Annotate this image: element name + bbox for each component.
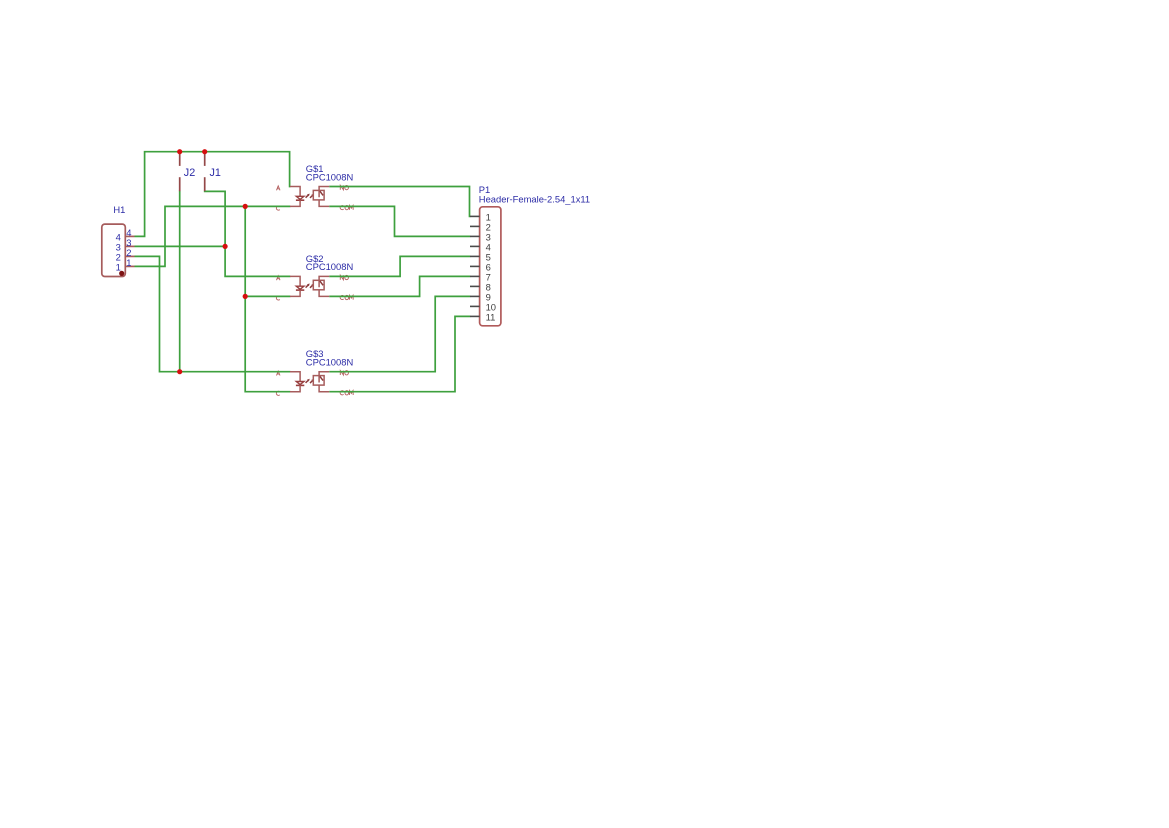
svg-text:Header-Female-2.54_1x11: Header-Female-2.54_1x11 (479, 193, 590, 204)
svg-text:1: 1 (126, 257, 131, 268)
svg-text:J1: J1 (210, 167, 221, 179)
pin label C of G$1 (276, 206, 279, 210)
P1 pin 1 stub (470, 215, 480, 217)
P1 pin 8 stub (470, 285, 480, 287)
wire G$1 NO to P1 pin1 (329, 187, 470, 217)
opto-relay G$3 switch box (313, 376, 324, 386)
opto-relay G$1 NO lead (319, 187, 329, 198)
P1 pin 3 stub (470, 235, 480, 237)
H1 pin 1 stub (125, 265, 134, 267)
wire J2 bottom to G$3 A row (179, 191, 181, 372)
connector H1 body (102, 224, 126, 276)
opto-relay G$3 COM lead (319, 385, 329, 392)
wire G$3 NO to P1 pin9 (329, 296, 470, 371)
svg-text:CPC1008N: CPC1008N (306, 261, 353, 272)
junction dot H1.3 / J1 (223, 244, 228, 249)
junction dot at J2 top (177, 149, 182, 154)
pin label A of G$3 (277, 371, 281, 375)
junction dot at J1 top (202, 149, 207, 154)
opto-relay G$2 LED triangle (296, 286, 304, 289)
opto-relay G$3 light arrow 2 (310, 381, 312, 383)
wire G$2 COM to P1 pin7 (329, 276, 470, 296)
P1 pin 7 stub (470, 275, 480, 277)
wire G$3 COM to P1 pin11 (329, 316, 470, 391)
wire net H1.2 to G$3 A (135, 256, 291, 371)
wire net H1.3 to junction J1 (135, 245, 226, 247)
pin label COM of G$3 (340, 391, 353, 395)
pin label A of G$2 (277, 276, 281, 280)
opto-relay G$2 switch box (313, 280, 324, 290)
svg-text:H1: H1 (113, 204, 125, 215)
pin label NO of G$2 (340, 275, 348, 279)
P1 pin 5 stub (470, 255, 480, 257)
opto-relay G$3 switch blade (320, 376, 323, 380)
svg-text:CPC1008N: CPC1008N (306, 357, 353, 368)
H1 pin 2 stub (125, 255, 134, 257)
opto-relay G$1 COM lead (319, 200, 329, 207)
connector P1 body (480, 207, 501, 326)
opto-relay G$2 switch blade (320, 281, 323, 285)
opto-relay G$1 LED triangle (296, 196, 304, 199)
opto-relay G$1 switch box (313, 190, 324, 200)
pin label A of G$1 (277, 186, 281, 190)
P1 pin 10 stub (470, 305, 480, 307)
jumper J2 upper pin (179, 152, 181, 166)
opto-relay G$3 LED triangle (296, 382, 304, 385)
svg-text:J2: J2 (184, 167, 195, 179)
opto-relay G$3 LED anode lead (290, 372, 300, 382)
jumper J1 lower pin (204, 177, 206, 191)
P1 pin 6 stub (470, 265, 480, 267)
svg-text:11: 11 (486, 311, 496, 322)
P1 pin 2 stub (470, 225, 480, 227)
wire branch to G$2 C (245, 295, 290, 297)
opto-relay G$2 LED anode lead (290, 276, 300, 286)
junction dot J2 / G$3 A (177, 369, 182, 374)
pin label COM of G$2 (340, 295, 353, 299)
opto-relay G$1 LED cathode lead (290, 200, 300, 206)
opto-relay G$1 light arrow 2 (310, 196, 312, 198)
opto-relay G$2 NO lead (319, 276, 329, 287)
wire net H1.4 to G$1 A (top bus) (135, 152, 291, 237)
opto-relay G$2 light arrow 2 (310, 285, 312, 287)
wire G$1 COM to P1 pin3 (329, 206, 470, 236)
opto-relay G$2 light arrow 1 (306, 285, 308, 287)
wire G$2 NO to P1 pin5 (329, 256, 470, 276)
pin label NO of G$1 (340, 185, 348, 189)
svg-text:CPC1008N: CPC1008N (306, 171, 353, 182)
jumper J1 upper pin (204, 152, 206, 166)
pin label COM of G$1 (340, 205, 353, 209)
wire C bus vertical to G$3 C (245, 206, 290, 391)
wire J1 bottom to G$2 A (205, 191, 291, 277)
opto-relay G$2 LED cathode lead (290, 290, 300, 296)
opto-relay G$2 COM lead (319, 290, 329, 297)
opto-relay G$2 LED cathode bar (296, 289, 304, 291)
opto-relay G$3 light arrow 1 (306, 381, 308, 383)
pin label NO of G$3 (340, 371, 348, 375)
opto-relay G$3 NO lead (319, 372, 329, 383)
wire net H1.1 to G$1 C (135, 206, 291, 266)
H1 anchor dot (119, 271, 124, 276)
pin label C of G$2 (276, 296, 279, 300)
junction dot C bus top (243, 204, 248, 209)
svg-text:1: 1 (116, 261, 121, 272)
P1 pin 4 stub (470, 245, 480, 247)
opto-relay G$1 LED anode lead (290, 187, 300, 197)
opto-relay G$1 LED cathode bar (296, 199, 304, 201)
opto-relay G$1 switch blade (320, 191, 323, 195)
jumper J2 lower pin (179, 177, 181, 191)
H1 pin 3 stub (125, 245, 134, 247)
P1 pin 11 stub (470, 315, 480, 317)
H1 pin 4 stub (125, 235, 134, 237)
opto-relay G$3 LED cathode lead (290, 385, 300, 391)
opto-relay G$3 LED cathode bar (296, 384, 304, 386)
opto-relay G$1 light arrow 1 (306, 195, 308, 197)
junction dot C bus at G$2 (243, 294, 248, 299)
P1 pin 9 stub (470, 295, 480, 297)
pin label C of G$3 (276, 391, 279, 395)
